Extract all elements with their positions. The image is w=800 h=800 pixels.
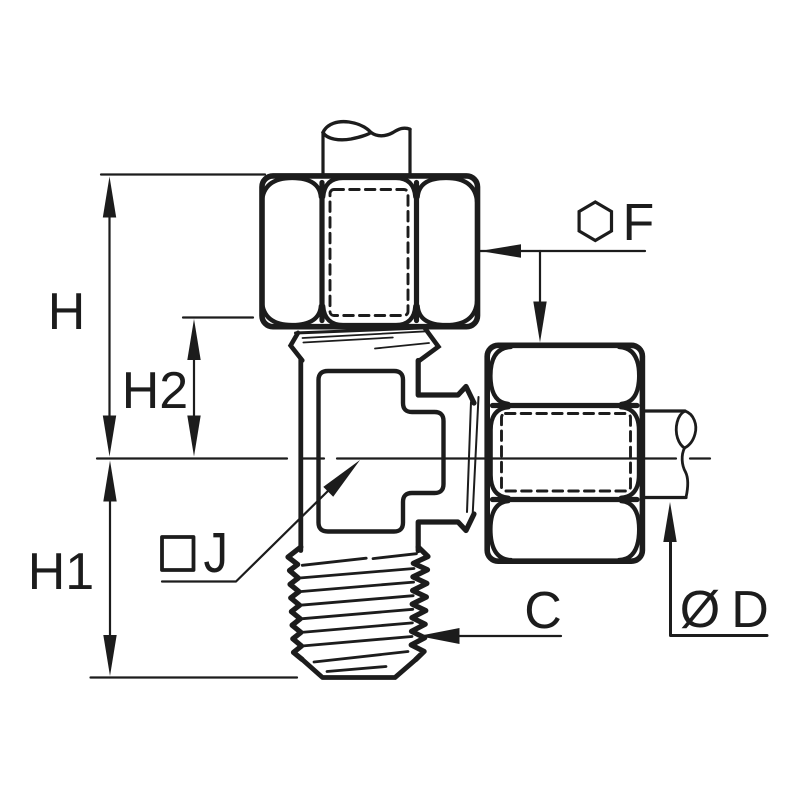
- H1 bottom arrow: [103, 635, 116, 676]
- J square symbol: [162, 537, 194, 570]
- F dimension lines: [480, 250, 645, 252]
- top nut outer: [262, 176, 478, 327]
- body outline: [301, 359, 474, 551]
- svg-text:C: C: [524, 582, 562, 640]
- right nut thread dashed: [502, 414, 631, 492]
- right zigzag: [411, 547, 428, 660]
- arrowheads: [103, 177, 677, 677]
- dimension H extension top: [101, 173, 265, 175]
- left zigzag: [288, 547, 302, 659]
- male thread stub: [288, 547, 428, 678]
- top nut thread dashed: [330, 190, 408, 316]
- dimension H2 line: [193, 345, 195, 435]
- H2 top arrow: [187, 319, 200, 360]
- F hexagon symbol: [579, 202, 611, 241]
- body right edge lower: [418, 514, 474, 551]
- svg-text:J: J: [204, 521, 229, 585]
- top tube: [323, 122, 410, 175]
- svg-text:Ø: Ø: [680, 581, 720, 639]
- svg-text:H1: H1: [28, 543, 94, 601]
- H bottom arrow: [103, 416, 116, 457]
- right nut outer: [487, 345, 642, 561]
- H1 top arrow: [103, 461, 116, 502]
- centerline: [97, 457, 710, 459]
- right nut top facet: [490, 347, 511, 404]
- right joint swage lines: [467, 397, 479, 518]
- F down arrow: [533, 302, 546, 343]
- body inner bore outline: [319, 371, 444, 532]
- D up arrow: [663, 502, 676, 542]
- C dimension line: [420, 635, 561, 637]
- svg-text:D: D: [731, 581, 769, 639]
- thread crest lines: [302, 558, 366, 565]
- H top arrow: [103, 177, 116, 218]
- bottom chamfer: [302, 659, 416, 677]
- right nut center facet: [491, 407, 509, 497]
- D dimension line: [671, 522, 768, 636]
- extension bottom: [91, 676, 298, 678]
- svg-text:H2: H2: [122, 362, 188, 420]
- body right edge upper: [418, 361, 474, 404]
- H2 extension: [183, 316, 253, 318]
- C left arrow: [419, 628, 460, 644]
- dimension H line: [108, 200, 110, 435]
- svg-text:H: H: [48, 283, 86, 341]
- right tube: [642, 411, 696, 498]
- J leader line: [162, 486, 333, 582]
- F left arrow: [480, 244, 521, 257]
- H2 bottom arrow: [187, 416, 200, 457]
- top nut center facet: [323, 178, 415, 197]
- top nut left facet: [262, 178, 321, 202]
- body left edge: [298, 359, 303, 551]
- dimension H1 line: [109, 480, 111, 650]
- top nut right facet: [418, 178, 477, 202]
- J leader arrow: [323, 460, 360, 497]
- washer swage under top nut: [291, 328, 439, 362]
- svg-text:F: F: [623, 194, 655, 252]
- right nut bottom facet: [490, 501, 511, 560]
